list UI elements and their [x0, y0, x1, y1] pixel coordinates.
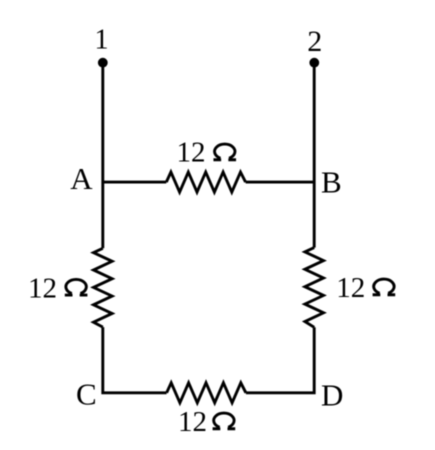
value label 12 ohm left — [28, 272, 87, 304]
wire left resistor bottom to node C to bottom resistor — [103, 327, 167, 393]
svg-text:12: 12 — [336, 272, 365, 304]
resistor R4 12 ohm bottom horizontal between C and D — [167, 383, 246, 403]
wire terminal 2 to node B to right resistor top — [313, 63, 316, 248]
svg-text:D: D — [321, 377, 343, 412]
wire terminal 1 to node A to left resistor top — [101, 63, 104, 249]
resistor R2 12 ohm left vertical between A and C — [94, 248, 113, 327]
terminal 1 dot — [98, 58, 108, 68]
svg-text:12: 12 — [178, 406, 207, 438]
resistor R1 12 ohm top horizontal between A and B — [166, 172, 245, 192]
value label 12 ohm right — [336, 272, 395, 304]
svg-text:C: C — [76, 377, 97, 412]
wire node A to top resistor — [103, 181, 167, 184]
wire top resistor to node B — [246, 181, 315, 184]
wire bottom resistor to node D to right resistor bottom — [246, 327, 314, 393]
svg-text:2: 2 — [307, 25, 322, 58]
value label 12 ohm top — [177, 137, 237, 169]
svg-text:B: B — [321, 164, 342, 199]
svg-text:12: 12 — [28, 272, 57, 304]
svg-text:1: 1 — [95, 25, 109, 56]
terminal 2 dot — [309, 58, 319, 68]
svg-text:12: 12 — [177, 137, 206, 169]
resistor R3 12 ohm right vertical between B and D — [305, 248, 324, 328]
svg-text:A: A — [70, 161, 93, 196]
value label 12 ohm bottom — [178, 406, 235, 438]
